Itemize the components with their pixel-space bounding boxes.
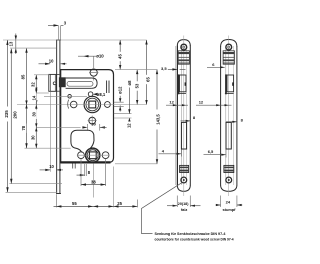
- extension line y=47.6: [10, 47, 56, 49]
- dim 12 middle line: [166, 104, 188, 106]
- right dim line 45: [119, 40, 121, 70]
- right plate bottom screw hole: [226, 177, 232, 183]
- right plate latch front band: [225, 74, 227, 94]
- svg-text:counterbore for countersunk wo: counterbore for countersunk wood screw D…: [155, 237, 234, 241]
- lock case bottom edge thick: [60, 161, 110, 163]
- svg-text:stumpf: stumpf: [223, 207, 237, 212]
- top screw post circle: [90, 69, 97, 76]
- dim 24 line and arrows: [216, 204, 221, 206]
- case right edge extension to bottom dim: [113, 167, 115, 208]
- bottom dim arrows: [56, 205, 61, 207]
- svg-text:ø10: ø10: [96, 54, 104, 59]
- left dim line 32/14/30/30: [35, 75, 37, 148]
- middle plate latch cutout box: [180, 75, 187, 92]
- dim 8 extension line 1: [84, 164, 86, 176]
- latch head inner bevel lines: [49, 74, 51, 91]
- svg-text:3,5: 3,5: [161, 66, 167, 71]
- faceplate front line (main view): [56, 40, 58, 194]
- lower follower square hole: [89, 152, 96, 159]
- right plate top screw hole: [226, 44, 232, 50]
- right plate centerline: [228, 36, 230, 197]
- svg-text:ø12: ø12: [118, 86, 123, 94]
- latch section hatched band (dark): [59, 77, 66, 87]
- extension line y=40: [3, 39, 147, 41]
- middle plate right edge: [189, 46, 191, 186]
- extension line case top right: [115, 69, 158, 71]
- right dim line 65: [146, 40, 148, 105]
- label dia12: [118, 84, 123, 96]
- dim 8 line with arrow: [77, 174, 85, 176]
- left dim line 13/85: [15, 34, 17, 55]
- svg-text:143,5: 143,5: [156, 114, 161, 125]
- label dia10 leader arrowhead: [83, 55, 88, 57]
- dim 3 line with arrow: [48, 24, 59, 26]
- middle plate latch front band: [178, 74, 179, 94]
- svg-text:24: 24: [226, 200, 231, 205]
- svg-text:65: 65: [146, 77, 151, 82]
- dim 12 right line: [196, 104, 232, 106]
- middle plate long slot: [181, 122, 186, 149]
- lower follower right flank hole: [102, 152, 109, 159]
- extension line case bottom right: [115, 163, 158, 165]
- middle plate countersink section rect: [178, 51, 189, 64]
- dim 30 upper ext line left: [36, 126, 80, 128]
- latch body rounded end: [92, 78, 97, 88]
- svg-text:10: 10: [49, 164, 54, 169]
- label 143,5: [156, 110, 161, 130]
- dia12 extension line 1: [114, 101, 124, 103]
- follower inner circle: [86, 98, 99, 111]
- extension line y=96.4: [44, 95, 87, 97]
- middle plate bottom arc: [177, 185, 190, 191]
- right plate inner channel lines: [225, 46, 227, 185]
- dim 24 extension lines: [220, 196, 222, 208]
- top screw post centerline vertical: [93, 57, 95, 69]
- extension line y=148.2: [25, 147, 71, 149]
- latch body bottom line: [66, 87, 92, 89]
- svg-text:10: 10: [49, 59, 54, 64]
- label 235: [4, 107, 9, 122]
- latch inner slot: [67, 81, 93, 86]
- lock stump line 1: [106, 81, 108, 94]
- label 85: [20, 72, 25, 81]
- left dim line 235: [7, 40, 9, 192]
- dim 38 lower extension line 1: [80, 159, 82, 186]
- lower follower inner circle: [87, 150, 98, 161]
- middle plate latch cutout lower line: [178, 93, 186, 95]
- right plate wc cutout: [224, 165, 234, 172]
- svg-text:14: 14: [31, 95, 36, 100]
- dim 6 line: [207, 66, 225, 68]
- svg-text:25: 25: [117, 201, 122, 206]
- label dia8,1 leader arrowhead: [93, 93, 98, 96]
- right plate bottom arc: [221, 185, 237, 191]
- circle below follower: [89, 117, 96, 124]
- svg-text:12: 12: [199, 99, 204, 104]
- dia12 extension line 2: [114, 105, 124, 107]
- svg-text:Senkung für Senkholzschraube D: Senkung für Senkholzschraube DIN 97-4: [155, 232, 227, 236]
- latch head guide notch: [53, 82, 56, 85]
- dim 6,5 extension: [225, 150, 227, 158]
- middle plate top screw hole: [181, 44, 187, 50]
- label 30 first: [32, 110, 37, 119]
- middle plate falz lip line: [175, 46, 177, 185]
- svg-text:53: 53: [134, 83, 139, 88]
- svg-text:13: 13: [8, 41, 13, 46]
- right plate countersink hatch bands: [224, 52, 235, 54]
- dim 3,5 line: [168, 68, 177, 70]
- svg-text:falz: falz: [181, 207, 188, 212]
- dim 38 lower line: [81, 184, 106, 186]
- lock stump line 2: [108, 81, 110, 94]
- label 30 second: [30, 133, 35, 142]
- dim 10 top line: [39, 63, 51, 65]
- lower follower centerline: [77, 154, 110, 156]
- circle below follower vertical tick: [91, 116, 93, 126]
- left dim line 200: [10, 48, 12, 184]
- left dim line 78: [26, 48, 28, 148]
- circle below follower horizontal tick: [88, 120, 97, 122]
- follower right flank hole: [105, 102, 111, 108]
- faceplate front extension to bottom dim: [55, 194, 57, 207]
- svg-text:85: 85: [20, 74, 25, 79]
- right end extension of bottom dim: [136, 200, 138, 208]
- svg-text:30: 30: [91, 122, 96, 127]
- label dia10 leader line: [78, 55, 96, 57]
- dia8 extension lines: [114, 113, 132, 115]
- svg-text:30: 30: [31, 135, 36, 140]
- latch body top line: [66, 77, 92, 79]
- senkung leader line: [142, 183, 183, 234]
- svg-text:45: 45: [117, 54, 122, 59]
- svg-text:ø8,1: ø8,1: [97, 92, 106, 97]
- dim 20(18) line and arrows: [167, 205, 177, 207]
- svg-text:200: 200: [13, 111, 18, 119]
- dim 38 lower extension line 2: [105, 159, 107, 186]
- dim 8 right line: [226, 121, 237, 123]
- latch tip extension line vertical: [49, 92, 51, 172]
- center extension line below case: [92, 164, 94, 198]
- dim 10 bottom line: [40, 169, 50, 171]
- label 200: [12, 108, 17, 123]
- dim 8 extension line 2: [85, 164, 87, 176]
- middle plate top arc: [177, 40, 190, 46]
- middle plate left edge: [177, 46, 179, 186]
- dim 3 extension lines: [58, 26, 60, 40]
- label 32: [31, 80, 36, 89]
- dia12 arrow lines: [119, 96, 121, 102]
- dim 8 middle line: [181, 120, 191, 122]
- svg-text:12: 12: [169, 99, 174, 104]
- svg-text:38: 38: [91, 179, 96, 184]
- cam shape outline: [71, 130, 94, 152]
- right plate right edge: [236, 46, 238, 185]
- svg-text:55: 55: [72, 201, 77, 206]
- right plate top arc: [221, 40, 237, 47]
- svg-text:12: 12: [127, 123, 132, 128]
- extension line y=183.7: [9, 183, 62, 185]
- follower outer circle: [84, 96, 100, 112]
- svg-text:235: 235: [4, 110, 9, 118]
- dim 4 extension: [180, 150, 182, 157]
- follower left flank hole: [70, 101, 77, 108]
- extension line y=74.8: [34, 74, 50, 76]
- svg-text:32: 32: [31, 82, 36, 87]
- svg-text:78: 78: [21, 125, 26, 130]
- right dim line 53: [136, 70, 138, 105]
- follower square hole: [89, 101, 96, 108]
- middle plate wc cutout: [180, 165, 189, 172]
- svg-text:ø8: ø8: [127, 80, 132, 86]
- svg-text:20(18): 20(18): [178, 202, 189, 206]
- small hole dia8.1: [88, 92, 93, 97]
- latch head outline: [49, 74, 57, 91]
- right dim line 143,5: [156, 70, 158, 164]
- faceplate top cap: [56, 39, 61, 41]
- right plate long slot: [226, 122, 231, 149]
- dim 4 line: [159, 153, 182, 155]
- svg-text:30: 30: [32, 111, 37, 116]
- label 14: [31, 93, 36, 102]
- lock case outline: [61, 70, 114, 163]
- dim 30 upper extension line 2: [99, 124, 101, 131]
- label 53: [134, 81, 139, 90]
- dim 30 upper right arrow: [100, 126, 105, 128]
- wc bolt guide lines below case: [72, 164, 74, 169]
- dim 20(18) extension lines: [176, 196, 178, 208]
- lower follower left flank hole: [78, 152, 85, 159]
- follower centerline horizontal: [17, 104, 147, 106]
- bottom dim line 55/25: [54, 205, 138, 207]
- middle plate countersink hatch bands: [179, 52, 189, 54]
- faceplate back line (main view): [59, 40, 61, 194]
- label 13: [8, 39, 13, 48]
- middle plate inner channel lines: [181, 46, 183, 185]
- middle plate centerline: [183, 36, 185, 197]
- label 45: [117, 52, 122, 61]
- dim 38 lower arrows: [81, 183, 86, 185]
- right plate latch cutout box: [227, 75, 234, 92]
- dia8 dim line vertical: [128, 88, 130, 114]
- right plate latch bevel notch: [232, 82, 234, 85]
- right plate countersink section rect: [223, 51, 234, 64]
- lower follower outer circle: [86, 148, 100, 162]
- right plate latch cutout lower line: [225, 93, 234, 95]
- dim 6,5 line: [204, 154, 226, 156]
- svg-text:6,5: 6,5: [208, 149, 214, 154]
- label 78: [21, 124, 26, 133]
- faceplate bottom cap: [56, 193, 61, 195]
- label 65: [146, 75, 151, 84]
- dim 30 upper extension line 1: [87, 124, 89, 131]
- middle plate latch bevel notch: [185, 82, 186, 85]
- extension line y=192.3: [6, 191, 58, 193]
- dim 30 upper left arrow: [82, 126, 87, 128]
- middle plate bottom screw hole: [181, 177, 187, 183]
- small arc left of flank hole: [68, 100, 69, 109]
- top screw post centerline horizontal: [89, 72, 98, 74]
- small guide pin hole: [68, 95, 72, 99]
- right plate left edge: [220, 46, 222, 185]
